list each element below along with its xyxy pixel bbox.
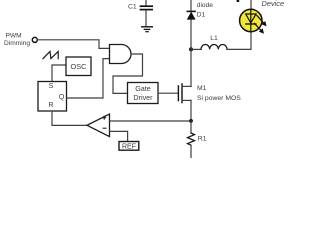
- LED emission arrow lower: [254, 23, 264, 33]
- cropped text mark: [237, 0, 240, 2]
- svg-text:R: R: [48, 100, 53, 109]
- svg-text:diode: diode: [197, 2, 213, 9]
- svg-text:M1: M1: [197, 85, 207, 92]
- wire Gate Driver output to MOSFET gate: [158, 92, 178, 94]
- gate U2 AND: [110, 45, 132, 64]
- wire resistor to ground rail: [190, 145, 192, 158]
- svg-text:S: S: [49, 81, 54, 90]
- latch U1 SR flip-flop: [38, 81, 67, 111]
- wire sense node to resistor: [190, 121, 192, 133]
- svg-text:L1: L1: [210, 35, 218, 42]
- LED device lamp: [240, 9, 267, 34]
- wire PWM terminal to AND gate top input: [38, 40, 110, 49]
- svg-text:REF: REF: [122, 144, 136, 151]
- svg-text:OSC: OSC: [70, 62, 87, 71]
- wire MOSFET source down to sense node: [190, 100, 192, 121]
- oscillator OSC: [66, 57, 91, 76]
- wire comparator minus input to REF: [110, 131, 128, 142]
- wire MOSFET drain up to switch node: [190, 49, 192, 87]
- wire Q output to AND gate bottom input: [67, 59, 110, 98]
- wire AND output to Gate Driver input: [113, 54, 143, 93]
- svg-text:Gate: Gate: [135, 84, 151, 93]
- node sense junction dot: [189, 119, 193, 123]
- svg-text:Dimming: Dimming: [4, 40, 30, 47]
- label PWM Dimming: [4, 33, 30, 47]
- sawtooth waveform icon: [43, 51, 58, 58]
- svg-text:Device: Device: [262, 0, 285, 8]
- capacitor C1: [128, 0, 152, 26]
- LED emission arrow upper: [257, 15, 267, 26]
- inductor L1: [201, 35, 227, 49]
- transistor M1 Si power MOSFET: [178, 84, 241, 103]
- ground below C1: [142, 27, 153, 32]
- block REF voltage reference: [119, 142, 139, 151]
- diode D1 freewheeling: [187, 2, 213, 19]
- svg-text:D1: D1: [197, 11, 206, 18]
- wire inductor to LED: [227, 32, 251, 50]
- wire OSC output to S input of latch: [52, 65, 66, 81]
- block Gate Driver: [128, 83, 159, 104]
- node switch junction dot: [189, 47, 193, 51]
- svg-text:R1: R1: [198, 136, 207, 143]
- wire LED top to supply: [250, 0, 252, 10]
- wire comparator plus input from sense node: [110, 120, 192, 122]
- svg-text:Driver: Driver: [133, 93, 153, 102]
- resistor R1 current sense: [188, 133, 207, 145]
- svg-text:Q: Q: [59, 92, 65, 101]
- wire diode branch rail: [190, 0, 192, 86]
- svg-text:Si power MOS: Si power MOS: [197, 95, 241, 102]
- node PWM input terminal: [32, 37, 37, 42]
- wire comparator output to R input of latch: [52, 111, 88, 125]
- wire dot to inductor: [191, 48, 201, 50]
- svg-text:C1: C1: [128, 4, 137, 11]
- op-amp U3 current comparator: [87, 114, 110, 137]
- svg-text:PWM: PWM: [6, 33, 22, 40]
